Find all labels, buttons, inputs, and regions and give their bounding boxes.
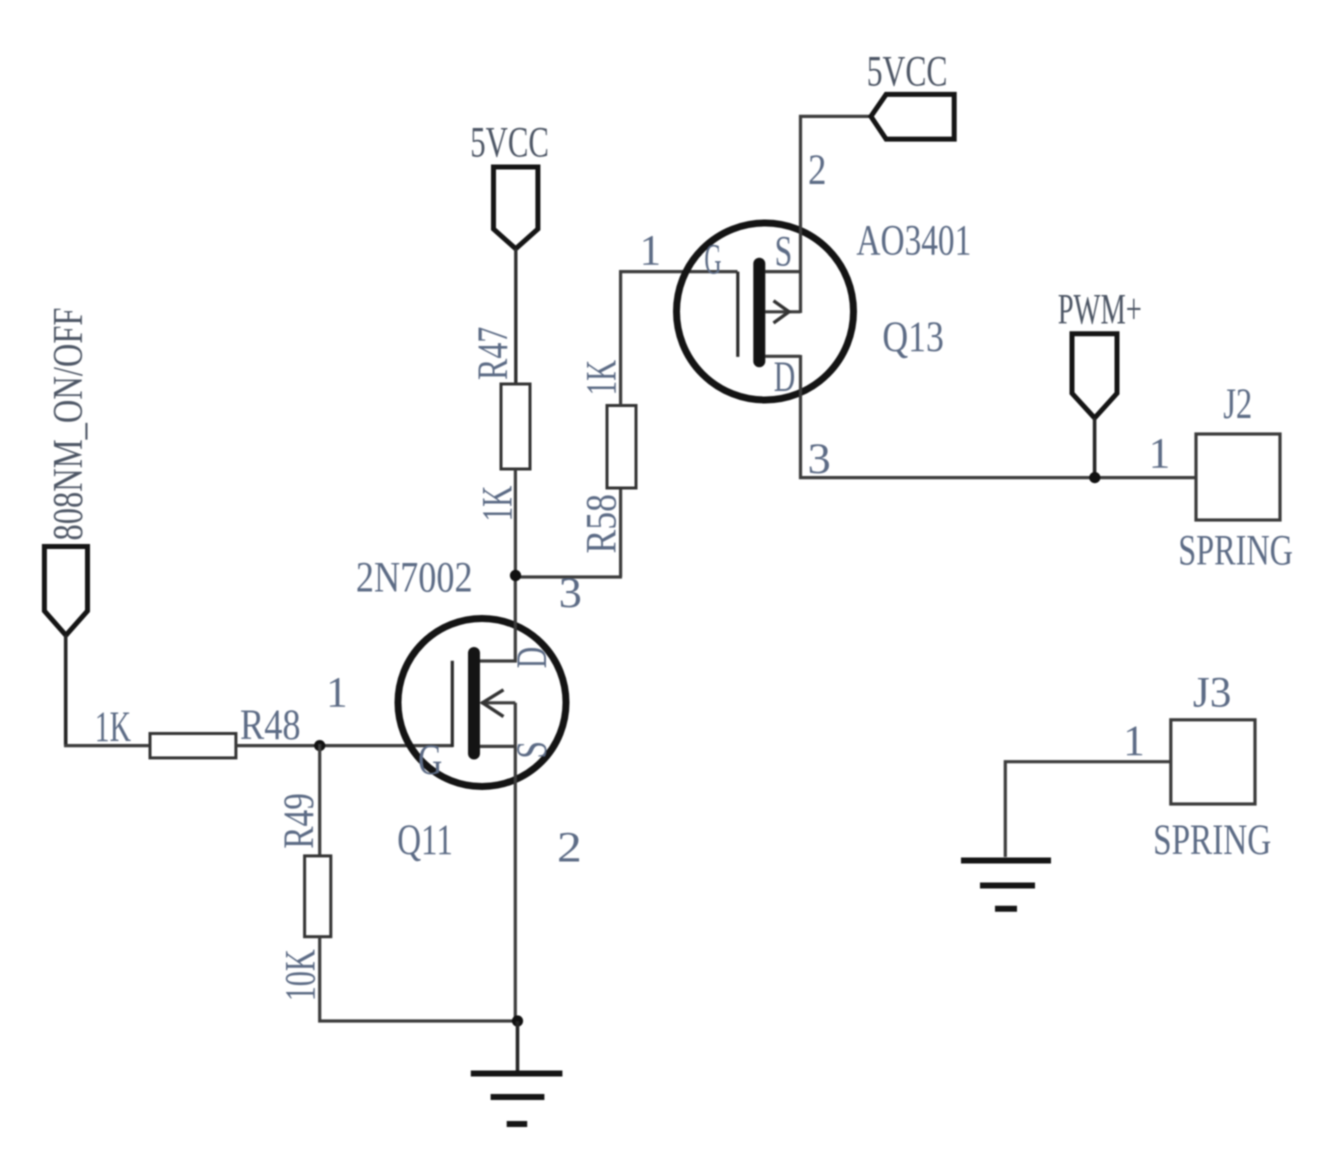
svg-text:Q11: Q11 [397, 817, 453, 864]
svg-text:1: 1 [1149, 430, 1171, 477]
power flag 5VCC (right) [871, 94, 954, 139]
transistor Q13 circle [677, 223, 854, 400]
svg-text:5VCC: 5VCC [867, 48, 948, 95]
transistor Q13 channel bar [753, 264, 765, 361]
junction node R48/R49/gate [314, 740, 325, 751]
wire Q11 source down to bottom rail [514, 703, 517, 1021]
transistor Q11 arrow [481, 701, 515, 704]
svg-text:3: 3 [808, 436, 831, 483]
wire PWM+ stem [1093, 418, 1097, 478]
wire R58 bottom [619, 489, 622, 577]
connector J2 [1196, 434, 1280, 520]
svg-text:J3: J3 [1193, 670, 1232, 717]
ground symbol (bottom) [471, 1071, 563, 1077]
transistor Q11 source lead [480, 745, 515, 748]
svg-text:SPRING: SPRING [1178, 528, 1293, 575]
wire J3 to ground [1005, 762, 1171, 857]
transistor Q11 circle [398, 619, 566, 787]
transistor Q11 gate line [451, 661, 454, 747]
wire Q13 drain to J2 [801, 355, 1197, 478]
wire R49 to bottom rail [320, 937, 519, 1021]
svg-text:D: D [509, 647, 556, 668]
wire Q13 source up [801, 116, 873, 313]
ground stem (bottom) [516, 1021, 520, 1071]
transistor Q13 arrow [765, 310, 801, 313]
svg-text:2: 2 [557, 824, 582, 871]
svg-text:PWM+: PWM+ [1058, 287, 1142, 334]
svg-text:S: S [775, 228, 793, 275]
svg-text:2N7002: 2N7002 [356, 554, 473, 601]
transistor Q13 gate line [736, 272, 739, 357]
wire corner to R48 [64, 744, 151, 747]
svg-text:G: G [704, 237, 721, 284]
resistor R47 [501, 384, 530, 469]
transistor Q11 drain lead [480, 574, 515, 661]
svg-text:R58: R58 [578, 494, 625, 554]
svg-text:D: D [774, 354, 796, 401]
svg-text:10K: 10K [278, 949, 325, 1001]
svg-text:R47: R47 [470, 327, 517, 380]
transistor Q13 source lead [765, 270, 801, 273]
svg-text:3: 3 [559, 570, 582, 617]
junction node PWM/J2 [1089, 472, 1100, 483]
svg-text:SPRING: SPRING [1153, 817, 1271, 864]
svg-text:1K: 1K [95, 704, 131, 751]
svg-text:R49: R49 [276, 793, 323, 849]
resistor R48 [150, 734, 236, 758]
svg-text:2: 2 [808, 147, 827, 194]
transistor Q11 channel bar [468, 653, 480, 754]
wire flag to R47 [514, 249, 517, 385]
svg-text:1: 1 [326, 669, 348, 716]
ground symbol (right) [961, 858, 1051, 864]
wire R48 to Q11 gate [236, 744, 453, 747]
svg-text:R48: R48 [240, 702, 301, 749]
svg-text:1: 1 [640, 228, 662, 275]
svg-text:1K: 1K [578, 360, 625, 395]
svg-text:1: 1 [1123, 718, 1145, 765]
wire R58 top to Q13 gate [621, 272, 738, 406]
resistor R58 [607, 406, 636, 489]
svg-text:Q13: Q13 [882, 314, 944, 361]
wire junction down to R49 [318, 744, 321, 857]
svg-text:G: G [418, 737, 442, 784]
svg-text:J2: J2 [1223, 381, 1252, 428]
power flag 808NM_ON/OFF [44, 547, 87, 636]
svg-text:5VCC: 5VCC [470, 120, 549, 167]
power flag PWM+ [1072, 334, 1117, 418]
wire R47 to junction [515, 469, 622, 577]
connector J3 [1171, 720, 1255, 804]
svg-text:S: S [509, 741, 556, 759]
transistor Q13 drain lead [765, 355, 801, 358]
svg-text:AO3401: AO3401 [856, 218, 971, 265]
power flag 5VCC (middle) [494, 167, 538, 249]
wire flag stem to corner [64, 635, 68, 745]
resistor R49 [305, 856, 331, 937]
junction node bottom rail [512, 1015, 523, 1026]
svg-text:808NM_ON/OFF: 808NM_ON/OFF [46, 308, 92, 541]
junction node drain/R47/R58 [510, 570, 521, 581]
